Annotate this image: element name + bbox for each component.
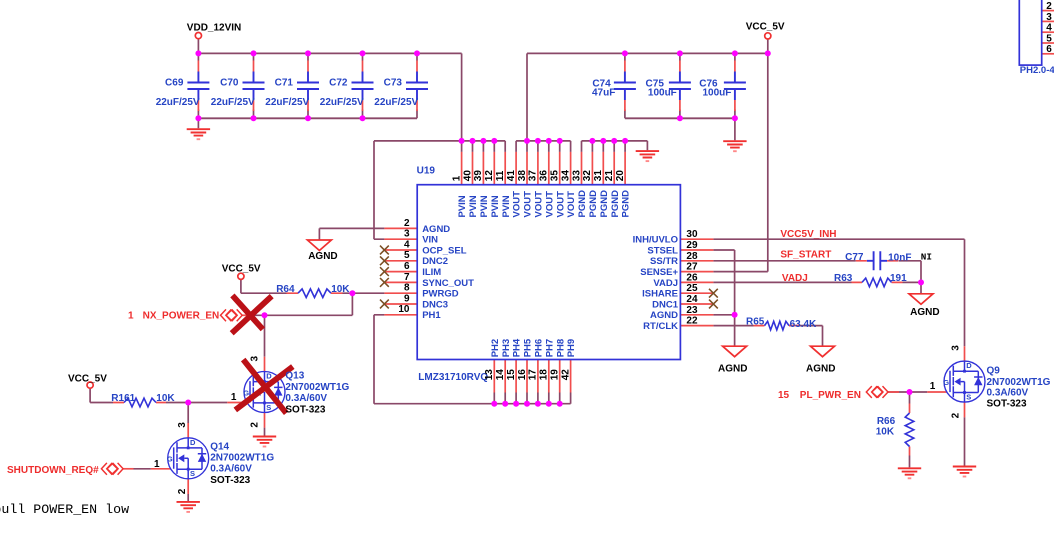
svg-text:PH8: PH8 bbox=[555, 339, 566, 357]
svg-text:C69: C69 bbox=[165, 78, 184, 89]
svg-text:34: 34 bbox=[560, 170, 571, 182]
svg-text:NI: NI bbox=[921, 251, 932, 262]
svg-text:8: 8 bbox=[404, 283, 410, 294]
svg-text:VCC_5V: VCC_5V bbox=[222, 263, 261, 274]
svg-text:PVIN: PVIN bbox=[501, 195, 512, 217]
svg-text:Q9: Q9 bbox=[987, 366, 1001, 377]
svg-text:0.3A/60V: 0.3A/60V bbox=[210, 463, 252, 474]
svg-text:S: S bbox=[190, 469, 195, 478]
svg-text:DNC3: DNC3 bbox=[422, 299, 448, 310]
svg-text:SOT-323: SOT-323 bbox=[987, 398, 1027, 409]
svg-text:47uF: 47uF bbox=[592, 88, 615, 99]
svg-text:22uF/25V: 22uF/25V bbox=[265, 97, 309, 108]
svg-text:C72: C72 bbox=[329, 78, 348, 89]
svg-text:22: 22 bbox=[686, 316, 698, 327]
svg-text:22uF/25V: 22uF/25V bbox=[211, 97, 255, 108]
svg-text:35: 35 bbox=[550, 170, 561, 182]
svg-text:100uF: 100uF bbox=[648, 88, 677, 99]
svg-text:1: 1 bbox=[128, 310, 134, 321]
svg-text:41: 41 bbox=[506, 170, 517, 182]
svg-text:C70: C70 bbox=[220, 78, 239, 89]
svg-text:Q13: Q13 bbox=[285, 371, 304, 382]
svg-text:PH2.0-4P: PH2.0-4P bbox=[1020, 65, 1054, 76]
svg-text:SHUTDOWN_REQ#: SHUTDOWN_REQ# bbox=[7, 465, 99, 476]
svg-text:LMZ31710RVQ: LMZ31710RVQ bbox=[418, 372, 488, 383]
svg-text:6: 6 bbox=[404, 261, 410, 272]
svg-text:3: 3 bbox=[249, 356, 260, 362]
svg-text:16: 16 bbox=[517, 369, 528, 381]
svg-text:27: 27 bbox=[686, 262, 698, 273]
svg-text:7: 7 bbox=[404, 272, 410, 283]
svg-text:25: 25 bbox=[686, 283, 698, 294]
svg-text:R161: R161 bbox=[111, 393, 135, 404]
svg-text:VADJ: VADJ bbox=[782, 273, 808, 284]
svg-text:G: G bbox=[167, 455, 173, 464]
svg-text:1: 1 bbox=[154, 459, 160, 470]
svg-text:3: 3 bbox=[177, 422, 188, 428]
svg-text:VADJ: VADJ bbox=[653, 278, 678, 289]
svg-text:AGND: AGND bbox=[910, 307, 939, 318]
svg-text:10K: 10K bbox=[156, 393, 175, 404]
svg-text:22uF/25V: 22uF/25V bbox=[156, 97, 200, 108]
svg-text:PVIN: PVIN bbox=[468, 195, 479, 217]
svg-text:17: 17 bbox=[528, 369, 539, 381]
svg-text:15: 15 bbox=[778, 390, 790, 401]
svg-text:AGND: AGND bbox=[718, 363, 747, 374]
svg-text:PGND: PGND bbox=[588, 190, 599, 218]
svg-text:31: 31 bbox=[593, 170, 604, 182]
svg-text:4: 4 bbox=[1046, 23, 1052, 34]
svg-text:38: 38 bbox=[517, 170, 528, 182]
svg-text:PGND: PGND bbox=[610, 190, 621, 218]
svg-text:VOUT: VOUT bbox=[512, 191, 523, 218]
svg-text:20: 20 bbox=[615, 170, 626, 182]
svg-text:40: 40 bbox=[462, 170, 473, 182]
svg-text:DNC2: DNC2 bbox=[422, 256, 448, 267]
svg-text:SF_START: SF_START bbox=[780, 249, 831, 260]
svg-text:RT/CLK: RT/CLK bbox=[643, 321, 678, 332]
svg-text:11: 11 bbox=[495, 170, 506, 181]
svg-text:9: 9 bbox=[404, 293, 410, 304]
svg-text:VOUT: VOUT bbox=[544, 191, 555, 218]
svg-text:DNC1: DNC1 bbox=[652, 299, 679, 310]
svg-text:30: 30 bbox=[686, 229, 698, 240]
svg-text:2: 2 bbox=[1046, 1, 1052, 12]
svg-text:SENSE+: SENSE+ bbox=[640, 267, 678, 278]
svg-text:PL_PWR_EN: PL_PWR_EN bbox=[800, 390, 861, 401]
svg-text:2N7002WT1G: 2N7002WT1G bbox=[285, 382, 349, 393]
svg-text:OCP_SEL: OCP_SEL bbox=[422, 245, 467, 256]
svg-text:PVIN: PVIN bbox=[479, 195, 490, 217]
svg-text:VIN: VIN bbox=[422, 235, 438, 246]
svg-text:pull POWER_EN low: pull POWER_EN low bbox=[0, 502, 129, 517]
svg-text:36: 36 bbox=[539, 170, 550, 182]
svg-text:3: 3 bbox=[1046, 12, 1052, 23]
svg-text:G: G bbox=[243, 388, 249, 397]
svg-text:21: 21 bbox=[604, 170, 615, 182]
svg-text:VOUT: VOUT bbox=[555, 191, 566, 218]
svg-text:PH3: PH3 bbox=[501, 339, 512, 357]
svg-text:100uF: 100uF bbox=[703, 88, 732, 99]
svg-text:15: 15 bbox=[506, 369, 517, 381]
svg-text:VDD_12VIN: VDD_12VIN bbox=[187, 23, 241, 34]
svg-text:2: 2 bbox=[249, 422, 260, 428]
svg-text:1: 1 bbox=[930, 381, 936, 392]
svg-text:2: 2 bbox=[951, 412, 962, 418]
svg-text:AGND: AGND bbox=[422, 224, 450, 235]
svg-text:5: 5 bbox=[404, 250, 410, 261]
svg-text:PH5: PH5 bbox=[523, 338, 534, 357]
svg-text:G: G bbox=[943, 378, 949, 387]
svg-text:2: 2 bbox=[177, 488, 188, 494]
svg-text:PH6: PH6 bbox=[534, 339, 545, 357]
svg-text:37: 37 bbox=[528, 170, 539, 182]
svg-text:23: 23 bbox=[686, 305, 698, 316]
svg-text:63.4K: 63.4K bbox=[790, 319, 817, 330]
svg-text:VCC5V_INH: VCC5V_INH bbox=[780, 229, 836, 240]
svg-text:R66: R66 bbox=[877, 416, 896, 427]
svg-text:6: 6 bbox=[1046, 44, 1052, 55]
svg-text:3: 3 bbox=[951, 345, 962, 351]
svg-text:STSEL: STSEL bbox=[647, 245, 678, 256]
svg-text:10K: 10K bbox=[331, 284, 350, 295]
svg-text:1: 1 bbox=[451, 175, 462, 181]
svg-text:4: 4 bbox=[404, 239, 410, 250]
svg-text:VOUT: VOUT bbox=[523, 191, 534, 218]
svg-text:32: 32 bbox=[582, 170, 593, 182]
svg-text:VCC_5V: VCC_5V bbox=[68, 373, 107, 384]
svg-text:S: S bbox=[966, 392, 971, 401]
svg-text:22uF/25V: 22uF/25V bbox=[320, 97, 364, 108]
svg-text:42: 42 bbox=[560, 369, 571, 381]
svg-text:PWRGD: PWRGD bbox=[422, 289, 459, 300]
svg-text:AGND: AGND bbox=[806, 363, 835, 374]
svg-text:ISHARE: ISHARE bbox=[642, 289, 678, 300]
svg-text:VOUT: VOUT bbox=[534, 191, 545, 218]
svg-text:2: 2 bbox=[404, 218, 410, 229]
svg-text:PH9: PH9 bbox=[566, 339, 577, 357]
svg-text:2N7002WT1G: 2N7002WT1G bbox=[210, 453, 274, 464]
svg-text:26: 26 bbox=[686, 272, 698, 283]
svg-text:INH/UVLO: INH/UVLO bbox=[633, 235, 678, 246]
svg-text:28: 28 bbox=[686, 251, 698, 262]
svg-text:19: 19 bbox=[550, 369, 561, 381]
svg-text:C77: C77 bbox=[845, 252, 864, 263]
svg-text:SS/TR: SS/TR bbox=[650, 256, 678, 267]
svg-text:D: D bbox=[190, 438, 196, 447]
svg-text:R65: R65 bbox=[746, 316, 765, 327]
svg-text:S: S bbox=[266, 403, 271, 412]
svg-text:PVIN: PVIN bbox=[457, 195, 468, 217]
svg-text:PVIN: PVIN bbox=[490, 195, 501, 217]
svg-text:29: 29 bbox=[686, 240, 698, 251]
svg-text:ILIM: ILIM bbox=[422, 267, 441, 278]
svg-text:14: 14 bbox=[495, 369, 506, 381]
svg-text:18: 18 bbox=[539, 369, 550, 381]
svg-text:R63: R63 bbox=[834, 273, 853, 284]
svg-text:PH1: PH1 bbox=[422, 310, 441, 321]
svg-text:D: D bbox=[966, 361, 972, 370]
svg-text:3: 3 bbox=[404, 229, 410, 240]
svg-text:C73: C73 bbox=[384, 78, 403, 89]
svg-text:10nF: 10nF bbox=[888, 253, 911, 264]
svg-text:PH2: PH2 bbox=[490, 339, 501, 357]
svg-text:12: 12 bbox=[484, 170, 495, 182]
svg-text:AGND: AGND bbox=[650, 310, 678, 321]
svg-text:PH7: PH7 bbox=[544, 339, 555, 357]
svg-text:NX_POWER_EN: NX_POWER_EN bbox=[143, 310, 220, 321]
svg-text:5: 5 bbox=[1046, 33, 1052, 44]
svg-text:10: 10 bbox=[398, 304, 410, 315]
svg-text:1: 1 bbox=[231, 392, 237, 403]
svg-text:0.3A/60V: 0.3A/60V bbox=[285, 393, 327, 404]
svg-text:Q14: Q14 bbox=[210, 442, 229, 453]
svg-text:24: 24 bbox=[686, 294, 698, 305]
svg-text:0.3A/60V: 0.3A/60V bbox=[987, 387, 1029, 398]
svg-text:10K: 10K bbox=[876, 427, 895, 438]
svg-text:AGND: AGND bbox=[308, 251, 337, 262]
svg-text:PGND: PGND bbox=[577, 190, 588, 218]
svg-text:VOUT: VOUT bbox=[566, 191, 577, 218]
svg-text:PGND: PGND bbox=[599, 190, 610, 218]
svg-text:VCC_5V: VCC_5V bbox=[746, 21, 785, 32]
svg-text:SOT-323: SOT-323 bbox=[285, 405, 325, 416]
svg-text:39: 39 bbox=[473, 170, 484, 182]
svg-text:R64: R64 bbox=[276, 284, 295, 295]
svg-text:PH4: PH4 bbox=[512, 338, 523, 357]
svg-text:33: 33 bbox=[571, 170, 582, 182]
svg-text:13: 13 bbox=[484, 369, 495, 381]
svg-text:C71: C71 bbox=[275, 78, 294, 89]
svg-text:SOT-323: SOT-323 bbox=[210, 475, 250, 486]
svg-text:U19: U19 bbox=[417, 166, 436, 177]
svg-text:191: 191 bbox=[890, 273, 907, 284]
svg-text:PGND: PGND bbox=[621, 190, 632, 218]
svg-text:22uF/25V: 22uF/25V bbox=[374, 97, 418, 108]
svg-text:SYNC_OUT: SYNC_OUT bbox=[422, 278, 474, 289]
